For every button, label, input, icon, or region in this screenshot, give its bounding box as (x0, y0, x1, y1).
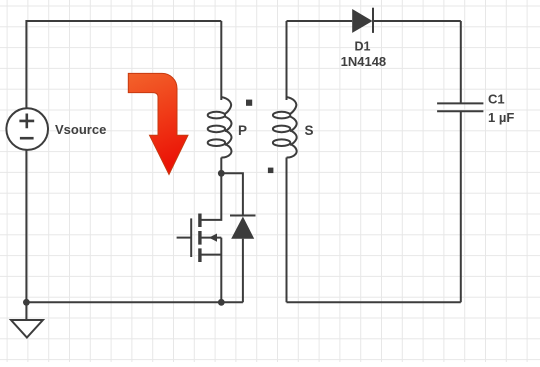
MOSFET Q1 source connection (202, 238, 222, 303)
capacitor C1 plates (437, 103, 483, 111)
svg-text:Vsource: Vsource (55, 122, 106, 137)
wire: node to body diode branch (221, 173, 243, 215)
diode D1 triangle (352, 9, 372, 33)
wire: right riser bottom (460, 111, 462, 302)
wire: bottom secondary horizontal (287, 301, 461, 303)
svg-text:D1: D1 (355, 40, 371, 54)
wire: top secondary right segment (373, 20, 461, 22)
ground symbol (11, 320, 43, 338)
node: source junction dot (218, 299, 225, 306)
MOSFET Q1 body arrow head (209, 234, 217, 242)
MOSFET Q1 channel segments (198, 214, 201, 263)
polarity dot primary (246, 100, 252, 106)
MOSFET Q1 drain connection (202, 173, 222, 220)
MOSFET Q1 gate lead (177, 237, 192, 239)
MOSFET Q1 body line (202, 237, 222, 239)
body diode of Q1 (230, 216, 256, 303)
current direction arrow (red annotation) (128, 73, 188, 174)
wire: secondary coil bottom drop (286, 158, 288, 303)
wire: left vertical below source (25, 150, 27, 302)
wire: secondary top drop (286, 21, 288, 100)
wire: right riser top (460, 21, 462, 103)
polarity dot secondary (268, 168, 274, 174)
ground stem (25, 302, 27, 320)
MOSFET Q1 gate plate (190, 218, 192, 257)
node: drain junction dot (218, 170, 225, 177)
svg-text:1 µF: 1 µF (488, 110, 514, 125)
voltage source Vsource (6, 108, 48, 150)
wire: left vertical above source (25, 20, 27, 108)
wire: top primary horizontal (26, 20, 221, 22)
transformer primary winding P (208, 97, 232, 158)
svg-text:1N4148: 1N4148 (341, 54, 387, 69)
svg-text:C1: C1 (488, 92, 505, 107)
svg-text:S: S (305, 123, 314, 138)
wire: bottom primary horizontal (26, 301, 243, 303)
diode D1 cathode bar (372, 8, 374, 33)
svg-text:P: P (238, 123, 247, 138)
wire: top secondary left segment (287, 20, 353, 22)
transformer secondary winding S (273, 97, 297, 158)
wire: primary top drop (220, 21, 222, 100)
node: ground junction dot (23, 299, 30, 306)
wire: primary coil bottom to drain node (220, 158, 222, 174)
